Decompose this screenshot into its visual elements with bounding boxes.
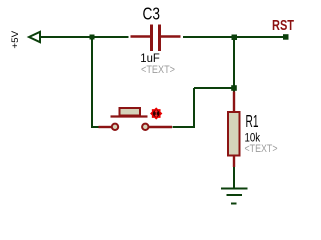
wire right branch horizontal	[194, 87, 234, 89]
button right terminal circle	[142, 124, 148, 130]
resistor R1 bottom lead	[233, 156, 235, 168]
terminal RST square	[283, 34, 289, 40]
svg-text:R1: R1	[246, 111, 259, 131]
wire top left (+5V to capacitor)	[39, 36, 129, 38]
button right lead	[149, 126, 172, 128]
svg-text:+5V: +5V	[10, 30, 21, 48]
button cap	[120, 108, 141, 116]
node junction at (234,37)	[232, 35, 238, 41]
button actuator bar	[111, 115, 148, 117]
wire right branch vertical up	[193, 88, 195, 127]
resistor R1 top lead	[233, 92, 235, 113]
node junction at (234,88)	[231, 85, 237, 91]
wire resistor to ground	[233, 167, 235, 188]
svg-text:C3: C3	[143, 4, 161, 24]
svg-text:1uF: 1uF	[140, 53, 160, 65]
capacitor C3 left plate	[150, 25, 153, 52]
wire left branch to button	[91, 126, 99, 128]
wire left branch vertical	[91, 37, 93, 127]
capacitor C3 left lead	[131, 35, 151, 37]
wire button to right branch	[173, 126, 196, 128]
ground symbol	[221, 189, 248, 204]
capacitor C3 right plate	[158, 25, 161, 52]
capacitor C3 right lead	[161, 35, 181, 37]
resistor R1 body	[228, 112, 240, 156]
node junction at (92,37)	[90, 35, 95, 40]
wire top right (capacitor to RST terminal)	[183, 36, 286, 38]
power symbol +5V arrow	[29, 32, 40, 42]
svg-text:<TEXT>: <TEXT>	[245, 143, 278, 155]
svg-text:<TEXT>: <TEXT>	[141, 64, 175, 76]
button actuator gear icon	[150, 107, 162, 119]
svg-text:RST: RST	[272, 17, 294, 34]
button left terminal circle	[112, 124, 118, 130]
wire RST line down to resistor	[233, 37, 235, 92]
button left lead	[99, 126, 112, 128]
